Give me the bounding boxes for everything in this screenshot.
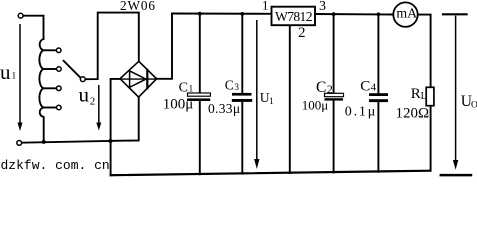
svg-text:W7812: W7812 — [275, 9, 313, 24]
svg-text:2W06: 2W06 — [120, 0, 156, 13]
svg-text:mA: mA — [396, 6, 417, 21]
svg-text:2: 2 — [298, 25, 306, 41]
svg-text:1: 1 — [269, 97, 274, 107]
svg-text:100μ: 100μ — [302, 97, 329, 112]
svg-text:2: 2 — [90, 96, 96, 108]
svg-text:L: L — [421, 91, 427, 102]
svg-text:4: 4 — [371, 81, 377, 93]
svg-text:u: u — [79, 83, 90, 107]
svg-text:1: 1 — [189, 84, 194, 94]
svg-text:R: R — [411, 86, 421, 102]
svg-text:0.1μ: 0.1μ — [345, 104, 377, 119]
svg-text:C: C — [179, 80, 188, 95]
svg-text:u: u — [0, 60, 11, 84]
svg-text:dzkfw. com. cn: dzkfw. com. cn — [1, 158, 110, 173]
svg-text:1: 1 — [262, 0, 269, 12]
svg-text:O: O — [471, 101, 477, 111]
svg-text:120Ω: 120Ω — [396, 105, 430, 121]
svg-text:C: C — [360, 78, 370, 94]
svg-text:1: 1 — [12, 72, 17, 82]
svg-text:3: 3 — [234, 83, 239, 93]
svg-text:2: 2 — [327, 82, 333, 96]
svg-text:C: C — [225, 77, 234, 92]
svg-text:0.33μ: 0.33μ — [208, 101, 240, 116]
svg-text:100μ: 100μ — [163, 97, 194, 113]
svg-text:C: C — [316, 79, 326, 96]
svg-text:3: 3 — [319, 0, 326, 14]
